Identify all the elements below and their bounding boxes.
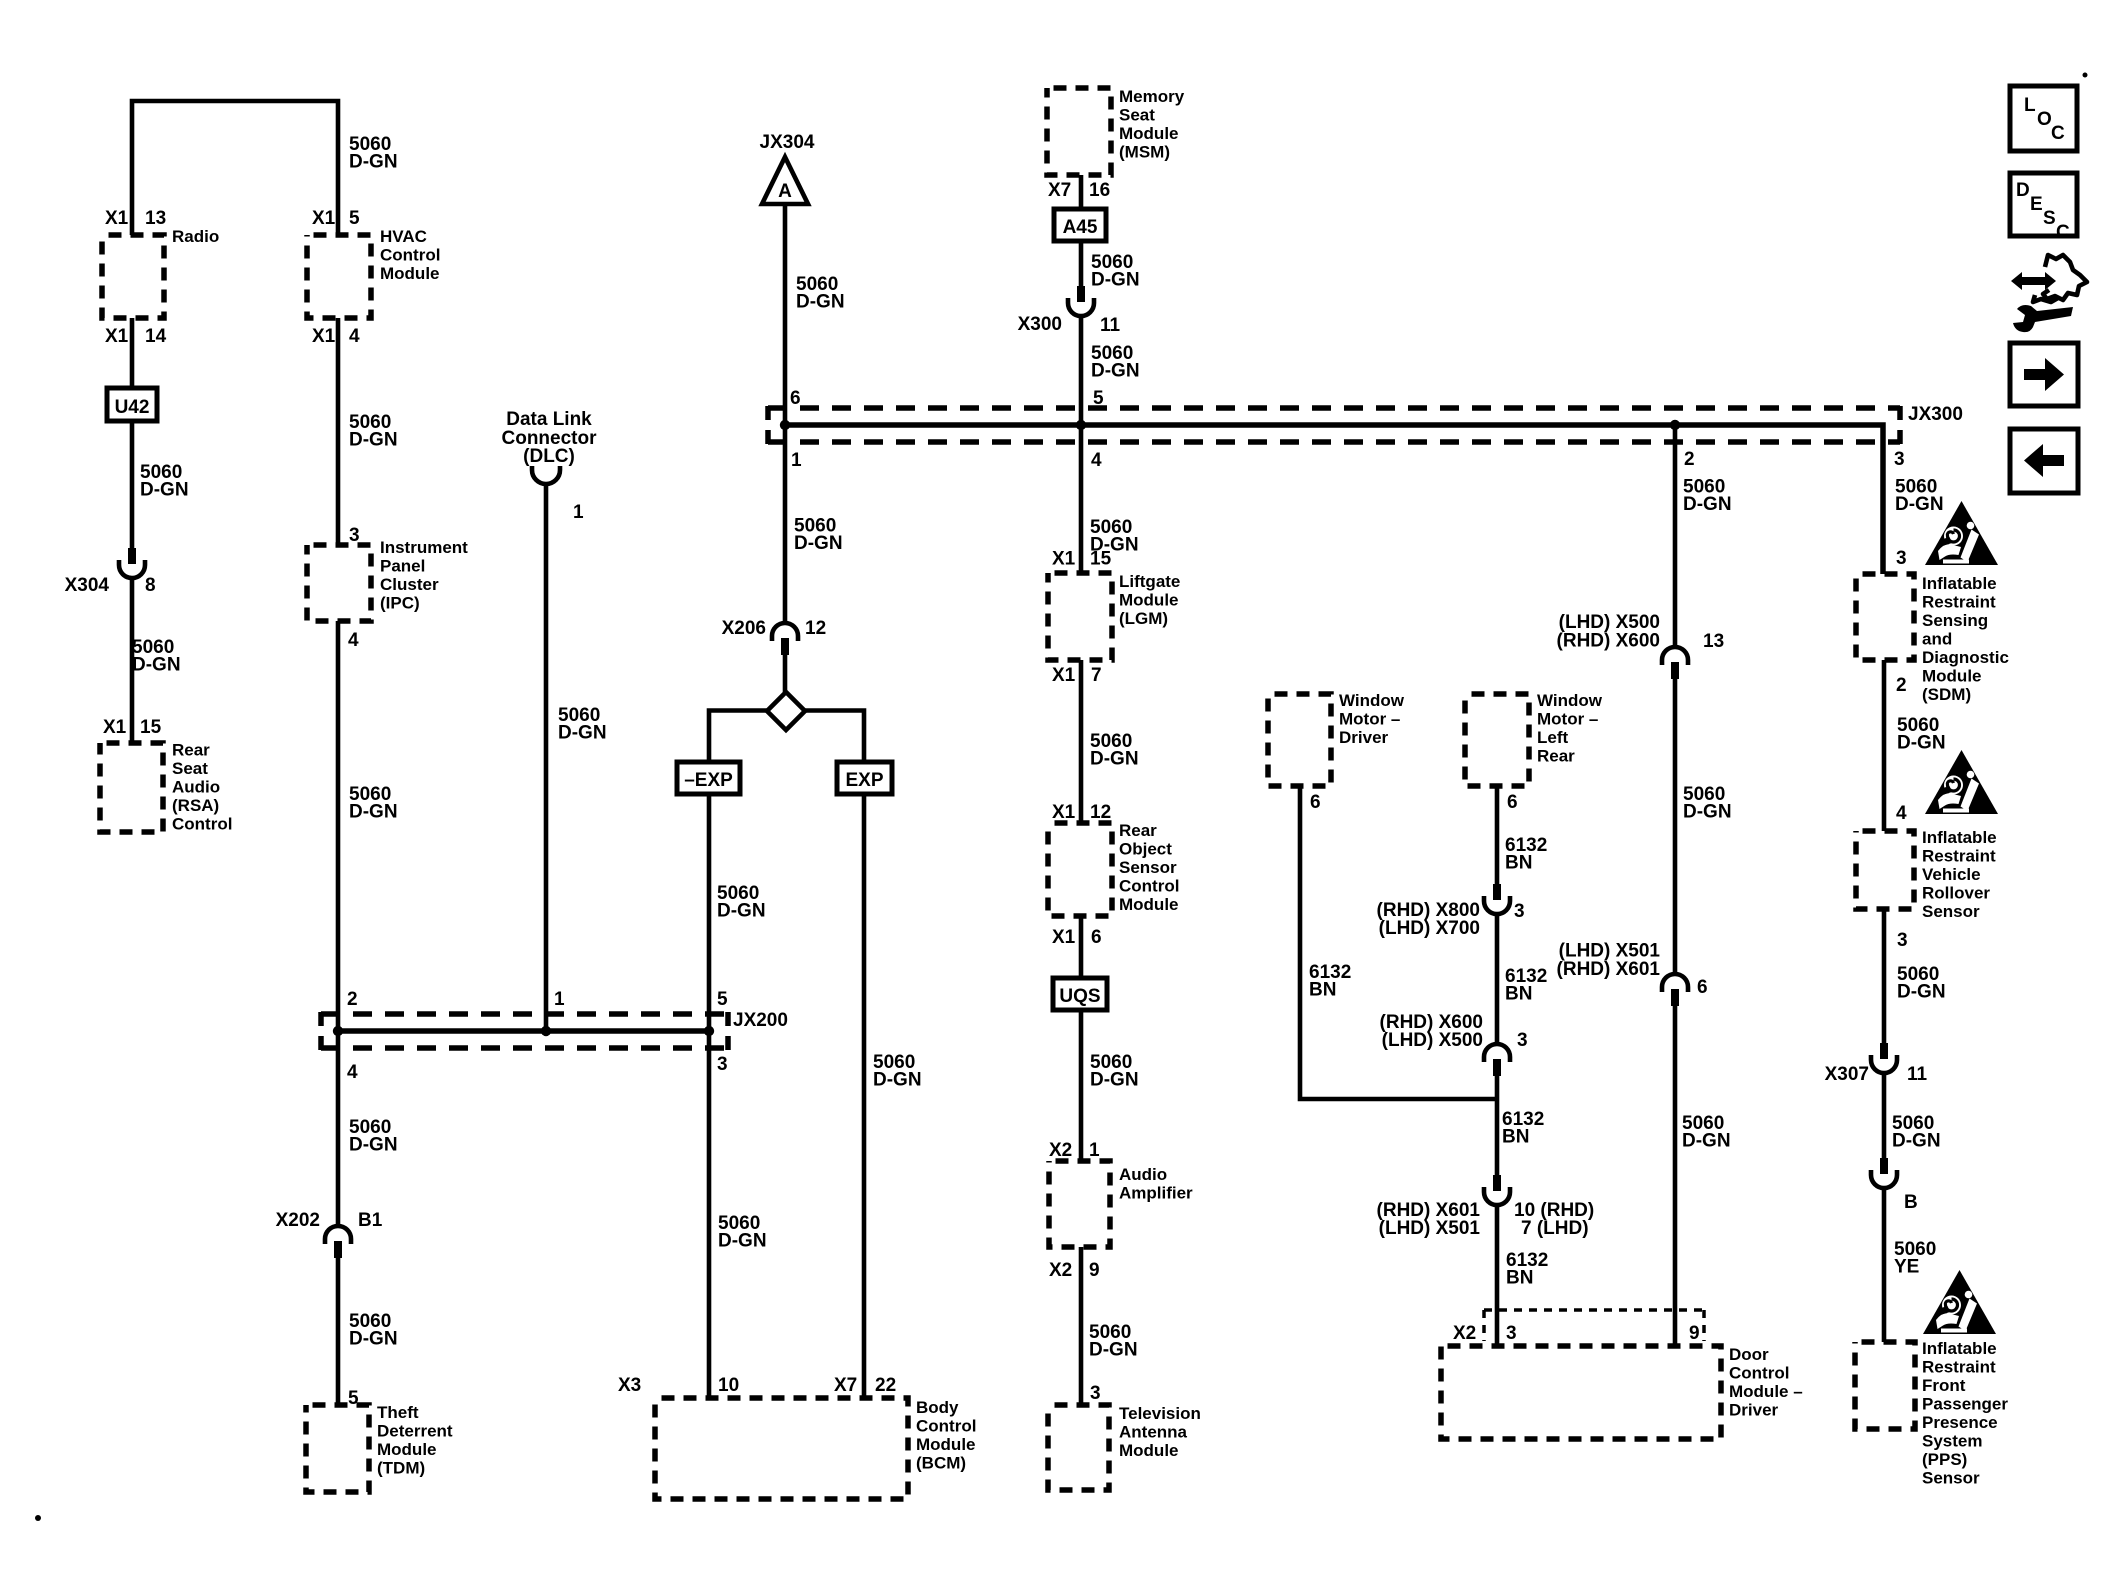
svg-text:2: 2: [1896, 675, 1907, 696]
svg-text:Rear: Rear: [1119, 821, 1157, 840]
connector X600/X500 pin 3: [1484, 1044, 1510, 1062]
svg-text:X2: X2: [1049, 1260, 1072, 1281]
svg-text:Television: Television: [1119, 1404, 1201, 1423]
svg-text:D-GN: D-GN: [140, 480, 189, 501]
svg-text:Left: Left: [1537, 728, 1569, 747]
svg-text:Antenna: Antenna: [1119, 1423, 1188, 1442]
svg-text:Data Link: Data Link: [506, 409, 592, 430]
bus JX200 solid line: [338, 1028, 709, 1034]
wire UQS to Audio Amplifier: [1079, 1010, 1084, 1161]
wire DLC to JX200: [544, 484, 549, 1031]
wire X501 to DCM pin 9: [1673, 1006, 1678, 1346]
svg-text:7: 7: [1091, 665, 1102, 686]
wire X600 to X601: [1495, 1076, 1500, 1175]
svg-text:B: B: [1904, 1192, 1918, 1213]
svg-text:(TDM): (TDM): [377, 1459, 425, 1478]
svg-text:X1: X1: [1052, 927, 1076, 948]
svg-text:6: 6: [1507, 792, 1518, 813]
wire ROS to UQS: [1079, 916, 1084, 978]
junction dot JX300 at MSM wire: [1076, 420, 1086, 430]
svg-text:Sensor: Sensor: [1119, 858, 1177, 877]
wire JX200 to X202: [336, 1031, 341, 1227]
svg-text:D-GN: D-GN: [558, 723, 607, 744]
connector X501/X601 pin 6: [1662, 974, 1688, 992]
wire JX300 to LGM: [1079, 425, 1084, 573]
bus JX200 dashed outline bottom: [321, 1045, 728, 1051]
svg-text:X1: X1: [103, 717, 127, 738]
svg-text:6: 6: [1697, 977, 1708, 998]
svg-text:Vehicle: Vehicle: [1922, 865, 1981, 884]
svg-text:Motor –: Motor –: [1339, 710, 1400, 729]
svg-text:1: 1: [791, 450, 802, 471]
svg-text:X3: X3: [618, 1375, 641, 1396]
svg-text:9: 9: [1089, 1260, 1100, 1281]
svg-text:Cluster: Cluster: [380, 575, 439, 594]
bus JX200 dashed outline top: [321, 1011, 728, 1017]
svg-text:8: 8: [145, 575, 156, 596]
svg-text:D-GN: D-GN: [1897, 982, 1946, 1003]
svg-text:Restraint: Restraint: [1922, 593, 1996, 612]
svg-text:BN: BN: [1505, 984, 1532, 1005]
svg-text:15: 15: [140, 717, 162, 738]
svg-text:10: 10: [718, 1375, 739, 1396]
svg-text:EXP: EXP: [845, 770, 883, 791]
svg-text:4: 4: [1091, 450, 1102, 471]
svg-text:D-GN: D-GN: [796, 292, 845, 313]
wire A45 to X300: [1079, 241, 1084, 286]
svg-text:2: 2: [347, 989, 358, 1010]
svg-text:Motor –: Motor –: [1537, 710, 1598, 729]
svg-text:4: 4: [347, 1062, 358, 1083]
wire JX300 pin2 to X500: [1673, 425, 1678, 648]
svg-text:Memory: Memory: [1119, 87, 1185, 106]
svg-text:Module: Module: [380, 264, 440, 283]
svg-text:X1: X1: [1052, 802, 1076, 823]
module HVAC Control Module: [307, 235, 371, 318]
svg-text:X1: X1: [312, 326, 336, 347]
bus JX300 dashed outline top: [768, 405, 1900, 411]
svg-text:4: 4: [348, 630, 359, 651]
module Rear Seat Audio (RSA) Control: [100, 743, 163, 832]
svg-text:D-GN: D-GN: [1897, 733, 1946, 754]
svg-text:D-GN: D-GN: [1091, 270, 1140, 291]
wire X300 to JX300: [1079, 315, 1084, 425]
svg-text:X1: X1: [312, 208, 336, 229]
wire JX304 to JX300 bus: [783, 204, 788, 425]
icon repair instructions arrow and wrench: [2011, 255, 2087, 332]
svg-text:1: 1: [554, 989, 565, 1010]
wire diamond horizontal split: [709, 711, 768, 763]
svg-text:BN: BN: [1505, 853, 1532, 874]
svg-text:Sensor: Sensor: [1922, 1469, 1980, 1488]
splice EXP box: [837, 762, 892, 794]
svg-text:(LHD) X700: (LHD) X700: [1379, 918, 1480, 939]
module Instrument Panel Cluster (IPC): [307, 545, 371, 621]
svg-text:Driver: Driver: [1339, 728, 1389, 747]
warning triangle airbag SDM: [1925, 501, 1998, 565]
svg-text:Module: Module: [1119, 124, 1179, 143]
bus JX300 solid line: [785, 425, 1883, 574]
svg-text:3: 3: [1897, 930, 1908, 951]
svg-text:C: C: [2051, 123, 2065, 144]
splice diamond: [767, 692, 805, 730]
svg-text:O: O: [2037, 109, 2052, 130]
svg-text:D-GN: D-GN: [717, 901, 766, 922]
svg-text:Theft: Theft: [377, 1403, 419, 1422]
svg-text:Instrument: Instrument: [380, 538, 468, 557]
svg-text:Module: Module: [916, 1435, 976, 1454]
module Memory Seat Module (MSM): [1047, 88, 1111, 175]
svg-text:Module: Module: [1119, 1441, 1179, 1460]
splice A45: [1054, 209, 1106, 241]
svg-text:D-GN: D-GN: [873, 1070, 922, 1091]
svg-text:D-GN: D-GN: [1682, 1131, 1731, 1152]
svg-text:12: 12: [1090, 802, 1111, 823]
svg-text:D-GN: D-GN: [349, 802, 398, 823]
svg-text:3: 3: [1517, 1030, 1528, 1051]
wire X206 to diamond: [783, 655, 788, 692]
junction dot JX300 at JX304 wire: [780, 420, 790, 430]
module Window Motor - Left Rear: [1465, 694, 1529, 786]
svg-text:(LHD) X500: (LHD) X500: [1382, 1030, 1483, 1051]
svg-text:X307: X307: [1825, 1064, 1869, 1085]
svg-text:C: C: [2056, 222, 2070, 243]
splice UQS: [1053, 978, 1107, 1010]
svg-text:X1: X1: [1052, 665, 1076, 686]
junction dot JX200 right end: [704, 1026, 714, 1036]
wire MSM to A45: [1079, 175, 1084, 209]
svg-text:6: 6: [1310, 792, 1321, 813]
svg-text:Sensor: Sensor: [1922, 902, 1980, 921]
icon right arrow box: [2010, 343, 2078, 406]
svg-text:3: 3: [1894, 449, 1905, 470]
svg-text:14: 14: [145, 326, 167, 347]
svg-text:YE: YE: [1894, 1257, 1919, 1278]
svg-text:Audio: Audio: [172, 778, 220, 797]
svg-text:and: and: [1922, 630, 1952, 649]
svg-text:(SDM): (SDM): [1922, 685, 1971, 704]
module Liftgate Module (LGM): [1048, 573, 1112, 660]
svg-text:Window: Window: [1339, 691, 1405, 710]
svg-text:13: 13: [145, 208, 166, 229]
svg-text:(DLC): (DLC): [523, 446, 575, 467]
svg-text:D-GN: D-GN: [1683, 494, 1732, 515]
svg-text:Module: Module: [1119, 591, 1179, 610]
connector X307 pin 11: [1880, 1043, 1888, 1059]
svg-text:5: 5: [349, 208, 360, 229]
svg-text:Presence: Presence: [1922, 1413, 1998, 1432]
svg-text:Restraint: Restraint: [1922, 1358, 1996, 1377]
svg-text:(RHD) X601: (RHD) X601: [1557, 959, 1661, 980]
wire X304 to RSA: [130, 577, 135, 743]
svg-text:Restraint: Restraint: [1922, 847, 1996, 866]
svg-text:6: 6: [790, 388, 801, 409]
svg-text:D-GN: D-GN: [132, 655, 181, 676]
wire B to PPS: [1882, 1187, 1887, 1342]
svg-text:D-GN: D-GN: [349, 1135, 398, 1156]
svg-text:11: 11: [1100, 315, 1121, 336]
connector X500/X600 pin 13: [1662, 647, 1688, 665]
svg-text:B1: B1: [358, 1210, 383, 1231]
svg-text:HVAC: HVAC: [380, 227, 427, 246]
svg-text:JX300: JX300: [1908, 404, 1963, 425]
connector X800/X700 pin 3: [1493, 884, 1501, 900]
svg-text:Rear: Rear: [172, 741, 210, 760]
svg-text:Object: Object: [1119, 840, 1172, 859]
module Inflatable Restraint Front Passenger Presence System (PPS) Sensor: [1855, 1342, 1915, 1429]
svg-text:D-GN: D-GN: [349, 430, 398, 451]
svg-text:(BCM): (BCM): [916, 1454, 966, 1473]
svg-text:3: 3: [1090, 1383, 1101, 1404]
wire JX300 to X206: [783, 425, 788, 624]
svg-text:BN: BN: [1502, 1127, 1529, 1148]
svg-text:A45: A45: [1063, 217, 1098, 238]
svg-text:BN: BN: [1309, 980, 1336, 1001]
svg-text:9: 9: [1689, 1323, 1700, 1344]
module Radio: [102, 235, 164, 318]
svg-text:System: System: [1922, 1432, 1982, 1451]
svg-text:4: 4: [1896, 803, 1907, 824]
svg-text:5: 5: [717, 989, 728, 1010]
connector shell X2 DCM dashes: [1484, 1308, 1704, 1312]
svg-text:Inflatable: Inflatable: [1922, 574, 1997, 593]
wire X500 to X501: [1673, 679, 1678, 975]
svg-text:D-GN: D-GN: [1892, 1131, 1941, 1152]
svg-text:X206: X206: [722, 618, 766, 639]
wire Radio to U42: [130, 318, 135, 388]
svg-text:Module –: Module –: [1729, 1382, 1803, 1401]
module Body Control Module (BCM): [655, 1398, 908, 1499]
bus JX300 corner ticks: [765, 406, 771, 420]
svg-text:3: 3: [1506, 1323, 1517, 1344]
svg-text:1: 1: [1089, 1140, 1100, 1161]
svg-text:X2: X2: [1049, 1140, 1072, 1161]
junction dot JX300 at pin2 wire: [1670, 420, 1680, 430]
wire IPC to JX200: [336, 621, 341, 1031]
svg-text:D-GN: D-GN: [1090, 1070, 1139, 1091]
module Television Antenna Module: [1048, 1405, 1109, 1490]
connector X304 pin 8: [128, 548, 136, 564]
svg-text:12: 12: [805, 618, 826, 639]
wire -EXP to JX200: [707, 794, 712, 1031]
svg-text:D: D: [2016, 180, 2030, 201]
svg-text:1: 1: [573, 502, 584, 523]
svg-text:Driver: Driver: [1729, 1401, 1779, 1420]
svg-text:7 (LHD): 7 (LHD): [1521, 1218, 1589, 1239]
module Inflatable Restraint Sensing and Diagnostic Module (SDM): [1856, 574, 1914, 660]
module Rear Object Sensor Control Module: [1048, 823, 1112, 916]
svg-text:S: S: [2043, 208, 2056, 229]
svg-text:Control: Control: [1119, 877, 1179, 896]
svg-text:(RSA): (RSA): [172, 796, 219, 815]
speck top right: [2083, 73, 2088, 78]
svg-text:Rear: Rear: [1537, 747, 1575, 766]
svg-text:E: E: [2030, 194, 2043, 215]
speck bottom left: [35, 1515, 41, 1521]
svg-text:(LGM): (LGM): [1119, 609, 1168, 628]
svg-text:Seat: Seat: [1119, 106, 1155, 125]
svg-text:D-GN: D-GN: [1091, 361, 1140, 382]
svg-text:Control: Control: [380, 246, 440, 265]
warning triangle airbag Rollover: [1925, 750, 1998, 814]
svg-text:13: 13: [1703, 631, 1724, 652]
module Theft Deterrent Module (TDM): [306, 1405, 369, 1492]
wire X202 to TDM: [336, 1258, 341, 1405]
module Window Motor - Driver: [1268, 694, 1331, 786]
svg-text:3: 3: [1514, 901, 1525, 922]
wire X800 to X600: [1495, 913, 1500, 1045]
bus JX200 corner ticks: [318, 1012, 324, 1026]
svg-text:Deterrent: Deterrent: [377, 1422, 453, 1441]
svg-text:D-GN: D-GN: [794, 533, 843, 554]
svg-text:D-GN: D-GN: [349, 1329, 398, 1350]
svg-text:U42: U42: [115, 397, 150, 418]
svg-text:5: 5: [1093, 388, 1104, 409]
wire SDM to Rollover: [1882, 660, 1887, 831]
svg-text:L: L: [2024, 95, 2036, 116]
svg-text:X2: X2: [1453, 1323, 1476, 1344]
svg-text:3: 3: [717, 1054, 728, 1075]
svg-text:D-GN: D-GN: [1090, 749, 1139, 770]
bus JX300 dashed outline bottom: [768, 439, 1900, 445]
svg-text:Audio: Audio: [1119, 1165, 1167, 1184]
svg-text:X304: X304: [65, 575, 110, 596]
svg-text:(MSM): (MSM): [1119, 143, 1170, 162]
svg-text:X1: X1: [105, 326, 129, 347]
svg-text:D-GN: D-GN: [1089, 1340, 1138, 1361]
wire Rollover to X307: [1882, 909, 1887, 1043]
wire LGM to ROS: [1079, 660, 1084, 823]
svg-text:X300: X300: [1018, 314, 1062, 335]
svg-text:Liftgate: Liftgate: [1119, 572, 1180, 591]
svg-text:Diagnostic: Diagnostic: [1922, 648, 2009, 667]
wire EXP to BCM X7-22: [862, 794, 867, 1398]
connector X206 pin 12: [772, 623, 798, 641]
wire JX200 to BCM X3-10: [707, 1031, 712, 1398]
svg-text:Passenger: Passenger: [1922, 1395, 2008, 1414]
svg-text:16: 16: [1089, 180, 1110, 201]
svg-text:Front: Front: [1922, 1376, 1966, 1395]
svg-text:X1: X1: [1052, 549, 1076, 570]
svg-text:Module: Module: [377, 1440, 437, 1459]
svg-text:JX304: JX304: [760, 132, 815, 153]
svg-text:Control: Control: [172, 815, 232, 834]
junction dot JX200 at IPC wire: [333, 1026, 343, 1036]
svg-text:Amplifier: Amplifier: [1119, 1184, 1193, 1203]
svg-text:JX200: JX200: [733, 1010, 788, 1031]
svg-text:UQS: UQS: [1059, 986, 1100, 1007]
svg-text:Inflatable: Inflatable: [1922, 1339, 1997, 1358]
svg-text:Module: Module: [1922, 667, 1982, 686]
svg-text:(RHD) X600: (RHD) X600: [1557, 631, 1660, 652]
svg-text:X7: X7: [834, 1375, 857, 1396]
svg-text:15: 15: [1090, 549, 1112, 570]
svg-text:Window: Window: [1537, 691, 1603, 710]
module Door Control Module - Driver: [1441, 1346, 1721, 1439]
wire top loop Radio to HVAC: [132, 101, 338, 235]
svg-text:BN: BN: [1506, 1268, 1533, 1289]
svg-text:Control: Control: [916, 1417, 976, 1436]
svg-text:Sensing: Sensing: [1922, 611, 1988, 630]
svg-text:Inflatable: Inflatable: [1922, 828, 1997, 847]
svg-text:Door: Door: [1729, 1345, 1769, 1364]
svg-text:(LHD) X501: (LHD) X501: [1379, 1218, 1481, 1239]
module Audio Amplifier: [1049, 1161, 1110, 1247]
svg-text:22: 22: [875, 1375, 896, 1396]
connector B PPS: [1880, 1158, 1888, 1174]
svg-text:Body: Body: [916, 1398, 959, 1417]
connector X202 pin B1: [325, 1226, 351, 1244]
svg-text:–EXP: –EXP: [684, 770, 733, 791]
wire WMLR to X800: [1495, 786, 1500, 884]
junction dot JX200 at DLC wire: [541, 1026, 551, 1036]
svg-text:A: A: [778, 181, 792, 202]
svg-text:X1: X1: [105, 208, 129, 229]
svg-text:2: 2: [1684, 449, 1695, 470]
svg-text:(PPS): (PPS): [1922, 1450, 1967, 1469]
svg-text:Radio: Radio: [172, 227, 219, 246]
wire X307 to B: [1882, 1072, 1887, 1158]
svg-text:D-GN: D-GN: [1683, 802, 1732, 823]
connector X300 pin 11: [1077, 286, 1085, 302]
svg-text:4: 4: [349, 326, 360, 347]
splice -EXP box: [677, 762, 740, 794]
svg-text:D-GN: D-GN: [1895, 494, 1944, 515]
wire WM Driver down and right: [1300, 786, 1495, 1099]
wire AMP to TV Antenna: [1079, 1247, 1084, 1405]
svg-text:X202: X202: [276, 1210, 320, 1231]
svg-text:11: 11: [1907, 1064, 1928, 1085]
warning triangle airbag PPS: [1923, 1270, 1996, 1334]
svg-text:Control: Control: [1729, 1364, 1789, 1383]
icon LOC box: [2010, 86, 2077, 151]
svg-text:(IPC): (IPC): [380, 594, 420, 613]
svg-text:Panel: Panel: [380, 557, 425, 576]
svg-text:D-GN: D-GN: [349, 152, 398, 173]
svg-text:Module: Module: [1119, 895, 1179, 914]
svg-text:Seat: Seat: [172, 759, 208, 778]
connector JX304 triangle A: [762, 157, 808, 204]
svg-text:X7: X7: [1048, 180, 1071, 201]
icon DESC box: [2010, 173, 2077, 236]
svg-text:Rollover: Rollover: [1922, 884, 1990, 903]
svg-text:3: 3: [1896, 548, 1907, 569]
icon left arrow box: [2010, 429, 2078, 493]
svg-text:D-GN: D-GN: [718, 1231, 767, 1252]
splice U42: [107, 388, 157, 421]
connector X601/X501 pin 10/7: [1493, 1175, 1501, 1191]
svg-text:6: 6: [1091, 927, 1102, 948]
module Inflatable Restraint Vehicle Rollover Sensor: [1856, 831, 1914, 909]
wire HVAC to IPC: [336, 318, 341, 545]
wire X601 to DCM pin 3: [1495, 1204, 1500, 1346]
wire U42 to X304: [130, 421, 135, 548]
